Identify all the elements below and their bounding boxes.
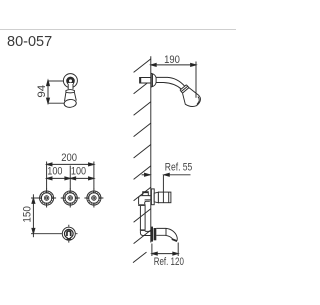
- shower head ball joint dark ring: [68, 78, 74, 84]
- Ref 120 arrows: [152, 252, 157, 255]
- wall hatching: [133, 59, 151, 263]
- dim 150 arrow down: [32, 228, 35, 233]
- valve side: elbow hub band: [138, 204, 145, 206]
- valve side: lower elbow: [140, 231, 150, 236]
- valve side: top hub cap: [143, 192, 149, 196]
- dim 190 line: [151, 64, 196, 66]
- svg-text:100: 100: [71, 165, 86, 177]
- dim 150 extension top: [31, 197, 39, 199]
- spout side: tube: [156, 228, 177, 241]
- dim 94 arrow down: [47, 98, 50, 103]
- dim 200 arrows: [47, 163, 52, 166]
- spout front crosshair ticks: [60, 225, 77, 243]
- shower head face inner line: [197, 97, 199, 105]
- valve trim: knob: [158, 192, 171, 203]
- svg-text:100: 100: [47, 165, 62, 177]
- spout front outer circle: [62, 227, 75, 240]
- valve 2: [61, 189, 80, 208]
- shower head face ellipse: [64, 99, 77, 108]
- dim 94 arrow up: [47, 80, 50, 85]
- dim 94 line: [47, 80, 49, 104]
- svg-text:200: 200: [61, 152, 77, 164]
- dim 94 extension top: [48, 80, 63, 82]
- valve trim: escutcheon plate: [151, 189, 154, 205]
- valve 1: [37, 189, 56, 208]
- valve side: horizontal pipe: [145, 196, 151, 200]
- shower arm tube: [156, 77, 185, 89]
- spout side: tube seam: [165, 228, 167, 235]
- shower head collar: [66, 90, 75, 93]
- valve side: vertical pipe: [140, 206, 145, 230]
- valve trim: neck: [154, 192, 158, 203]
- header rule: [0, 29, 236, 31]
- shower arm stub band: [140, 78, 142, 84]
- shower head neck lines: [68, 84, 73, 89]
- shower head cone side: [183, 88, 201, 107]
- dim 190 arrows: [151, 63, 156, 66]
- side view wall line: [150, 56, 152, 242]
- dim 200 line: [47, 163, 94, 165]
- shower arm flange inner line: [152, 74, 154, 87]
- dim 100 extension middle: [69, 166, 71, 190]
- spout front mouth: [66, 238, 71, 241]
- shower head neck white mask: [68, 83, 73, 89]
- spout front body ring: [65, 230, 73, 238]
- svg-text:Ref. 55: Ref. 55: [165, 162, 193, 174]
- Ref 120 dim line: [152, 253, 178, 255]
- spout front arch: [66, 230, 71, 236]
- shower head cone: [65, 92, 77, 101]
- dim 100 line: [47, 177, 94, 179]
- spout side: escutcheon disc 2: [154, 228, 157, 240]
- svg-text:94: 94: [36, 85, 48, 98]
- valve 3: [84, 189, 103, 208]
- svg-text:190: 190: [164, 54, 180, 66]
- spout side: mouth: [172, 238, 178, 242]
- dim 200 extension left: [46, 162, 48, 190]
- valve side: upper elbow: [139, 196, 150, 205]
- Ref 55 dim left segment: [142, 174, 150, 176]
- shower arm wall flange: [151, 73, 156, 87]
- Ref 120 extension left: [151, 244, 153, 257]
- dim 100 arrows: [47, 177, 52, 180]
- spout side: escutcheon disc 1: [151, 227, 153, 242]
- Ref 120 extension right: [177, 243, 179, 257]
- Ref 55 dim right segment: [164, 174, 191, 176]
- dim 94 extension bottom: [48, 102, 64, 104]
- spout front arch slot: [68, 232, 70, 238]
- valve side: lower hub band: [140, 229, 146, 231]
- shower head side view: flange outer circle: [63, 74, 77, 88]
- dim 200 extension right: [93, 162, 95, 190]
- Ref 55 extension line: [162, 175, 164, 192]
- svg-text:150: 150: [21, 206, 33, 222]
- spout front view: [60, 225, 77, 243]
- dim 150 arrow up: [32, 198, 35, 203]
- svg-text:Ref. 120: Ref. 120: [154, 256, 184, 268]
- dim 190 extension right: [195, 62, 197, 98]
- dim 150 extension bottom: [31, 233, 60, 235]
- shower arm collar bands: [180, 85, 189, 93]
- svg-text:80-057: 80-057: [7, 34, 52, 50]
- shower arm stub behind wall: [140, 78, 151, 84]
- dim 150 line: [32, 194, 34, 237]
- valve trim: knob lines: [163, 192, 168, 203]
- spout front inner white arc: [66, 230, 73, 237]
